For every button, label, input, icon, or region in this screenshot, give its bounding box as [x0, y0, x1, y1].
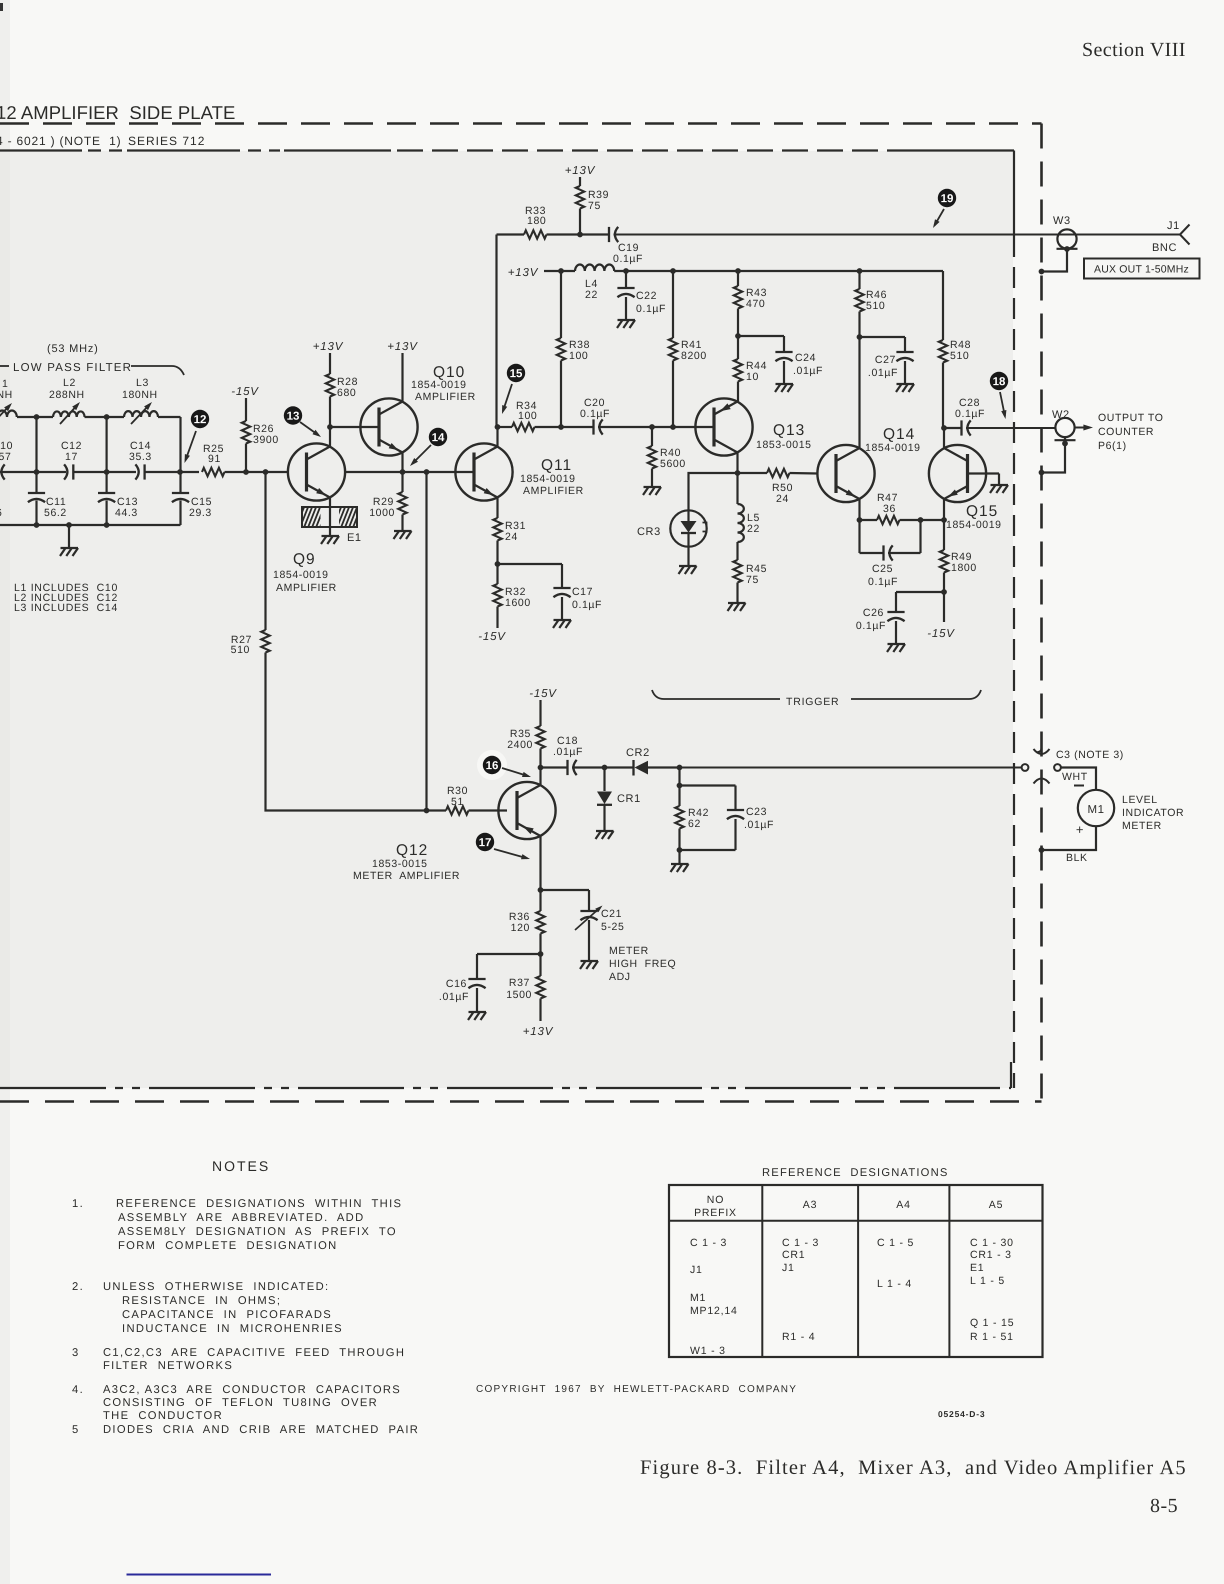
svg-text:PREFIX: PREFIX [694, 1207, 737, 1219]
svg-text:.01µF: .01µF [553, 746, 583, 758]
transistor Q15 (mirrored) [929, 445, 986, 502]
resistor R50 24 [738, 472, 768, 474]
svg-text:BLK: BLK [1066, 852, 1088, 864]
wire Q14 emitter [858, 499, 860, 521]
resistor R33 180 [524, 230, 547, 238]
resistor R49 1800 [943, 520, 945, 550]
ground below CR1 [596, 830, 614, 832]
resistor R36 120 [539, 890, 541, 911]
resistor R38 100 [560, 271, 562, 338]
W2 shield bar [1055, 439, 1076, 441]
svg-text:ADJ: ADJ [609, 971, 631, 983]
feedthrough C3 symbol [1038, 736, 1042, 752]
svg-text:C17: C17 [572, 586, 593, 598]
capacitor C11 56.2 [28, 492, 45, 494]
svg-text:P6(1): P6(1) [1098, 440, 1127, 452]
junction top rail 2 [104, 414, 110, 420]
svg-text:0.1µF: 0.1µF [572, 599, 602, 611]
svg-text:REFERENCE DESIGNATIONS: REFERENCE DESIGNATIONS [762, 1167, 949, 1179]
trigger brace [652, 690, 780, 699]
svg-text:12 AMPLIFIER SIDE PLATE: 12 AMPLIFIER SIDE PLATE [0, 102, 235, 123]
node 18 badge [990, 372, 1008, 390]
wire Q15 emitter [943, 499, 945, 521]
svg-text:180: 180 [527, 215, 546, 227]
svg-text:RESISTANCE IN OHMS;: RESISTANCE IN OHMS; [122, 1295, 281, 1307]
svg-text:Section VIII: Section VIII [1082, 39, 1186, 61]
node 19 arrow [935, 209, 944, 225]
svg-text:1600: 1600 [505, 597, 531, 609]
svg-text:UNLESS OTHERWISE INDICATED:: UNLESS OTHERWISE INDICATED: [103, 1281, 329, 1293]
svg-text:19: 19 [941, 193, 954, 205]
svg-text:5-25: 5-25 [601, 921, 624, 933]
svg-text:FORM COMPLETE DESIGNATION: FORM COMPLETE DESIGNATION [118, 1240, 338, 1252]
node 15 badge [507, 364, 525, 382]
resistor R44 10 [737, 336, 739, 359]
svg-text:100: 100 [569, 350, 588, 362]
svg-text:NO: NO [707, 1194, 724, 1206]
svg-text:44.3: 44.3 [115, 507, 138, 519]
svg-text:13: 13 [287, 411, 300, 423]
junction mid rail 2 [104, 469, 110, 475]
wire W3 shield to border [1042, 249, 1068, 272]
junction R26 bottom [243, 469, 249, 475]
svg-text:24: 24 [776, 493, 789, 505]
outer dashed border right [1040, 124, 1043, 1102]
svg-text:Q 1 - 15: Q 1 - 15 [970, 1317, 1014, 1329]
svg-text:C24: C24 [795, 352, 816, 364]
wire C3 to meter [1061, 768, 1096, 791]
wire R25 to Q9 [225, 471, 289, 473]
schematic interior shading [0, 151, 1013, 1088]
svg-text:-15V: -15V [927, 628, 955, 640]
node 14 badge [429, 428, 447, 446]
junction R39 bottom [577, 232, 583, 238]
svg-text:4.: 4. [72, 1384, 84, 1396]
svg-text:INDUCTANCE IN MICROHENRIES: INDUCTANCE IN MICROHENRIES [122, 1323, 343, 1335]
svg-text:COUNTER: COUNTER [1098, 426, 1154, 438]
svg-text:22: 22 [585, 289, 598, 301]
capacitor C24 .01uF [783, 336, 785, 352]
svg-text:4 - 6021 ) (NOTE 1): 4 - 6021 ) (NOTE 1) [0, 134, 121, 148]
svg-text:E1: E1 [970, 1262, 984, 1274]
svg-text:1500: 1500 [506, 989, 532, 1001]
resistor R47 36 [860, 519, 878, 521]
svg-text:1854-0019: 1854-0019 [520, 473, 576, 485]
svg-text:Q14: Q14 [883, 426, 915, 443]
svg-text:METER AMPLIFIER: METER AMPLIFIER [353, 870, 460, 882]
svg-text:0.1µF: 0.1µF [955, 408, 985, 420]
ground below R29 [394, 530, 412, 532]
svg-text:C21: C21 [601, 908, 622, 920]
wire Q11 collector to node 15 [496, 427, 498, 447]
ground below R40 [644, 486, 662, 488]
svg-text:.01µF: .01µF [793, 365, 823, 377]
resistor R43 470 [737, 271, 739, 286]
wire C19 to W3/J1 [614, 234, 1181, 236]
ground below R42 [678, 850, 680, 864]
transistor Q11 [455, 443, 512, 500]
svg-text:29.3: 29.3 [189, 507, 212, 519]
ground Q15 base [991, 484, 1009, 486]
svg-text:HIGH FREQ: HIGH FREQ [609, 958, 676, 970]
svg-text:470: 470 [746, 298, 765, 310]
transistor Q12 (PNP) [498, 782, 555, 839]
diode CR2 [632, 760, 634, 776]
wire rail L4 to corner [614, 270, 943, 272]
blue pen mark [127, 1574, 272, 1576]
svg-text:J1: J1 [1167, 220, 1180, 232]
svg-text:0.1µF: 0.1µF [856, 620, 886, 632]
svg-text:14: 14 [432, 432, 445, 444]
svg-text:C27: C27 [875, 354, 896, 366]
ground below C21 [581, 960, 599, 962]
svg-text:R 1 - 51: R 1 - 51 [970, 1331, 1014, 1343]
capacitor C12 17 [72, 464, 74, 479]
resistor R31 24 [496, 498, 498, 519]
ground below C16 [469, 1011, 487, 1013]
inductor L4 22 [575, 265, 614, 271]
wire E1 to ground [329, 507, 331, 536]
svg-text:-15V: -15V [478, 631, 506, 643]
svg-text:C26: C26 [863, 607, 884, 619]
ground below C26 [888, 643, 906, 645]
resistor R45 75 [736, 542, 738, 560]
junction C27 node [857, 334, 863, 340]
junction shield on border [1039, 269, 1045, 275]
junction CR1 top [602, 765, 608, 771]
capacitor C17 0.1uF [561, 564, 563, 588]
wire Q12 collector [539, 768, 541, 786]
svg-text:3: 3 [72, 1347, 80, 1359]
svg-text:CR1: CR1 [617, 793, 641, 805]
svg-text:ASSEMBLY ARE ABBREVIATED. A: ASSEMBLY ARE ABBREVIATED. ADD [118, 1212, 365, 1224]
svg-text:1854-0019: 1854-0019 [946, 519, 1002, 531]
wire Q9 to Q11 main line [345, 471, 474, 473]
wire Q12 emitter [539, 836, 541, 890]
resistor R48 510 [939, 340, 947, 362]
ground below CR3 [679, 565, 697, 567]
capacitor C14 35.3 [143, 464, 145, 479]
resistor R32 1600 [493, 584, 501, 607]
svg-text:L3 INCLUDES C14: L3 INCLUDES C14 [14, 602, 118, 614]
ground below E1 [322, 535, 340, 537]
wire +13V to R28 [329, 353, 331, 374]
svg-text:L 1 - 5: L 1 - 5 [970, 1275, 1005, 1287]
wire C18 to CR1 node [572, 766, 634, 768]
svg-text:Q13: Q13 [773, 422, 805, 439]
capacitor C26 0.1uF [895, 592, 897, 612]
resistor R26 3900 [242, 421, 250, 443]
capacitor C22 0.1uF [625, 271, 627, 288]
junction filter output [177, 469, 183, 475]
junction Q14 emitter [857, 517, 863, 523]
svg-text:8200: 8200 [681, 350, 707, 362]
svg-text:91: 91 [208, 453, 221, 465]
svg-text:L 1 - 4: L 1 - 4 [877, 1278, 912, 1290]
feedthrough C3 terminals [1022, 764, 1029, 771]
resistor R40 5600 [651, 427, 653, 446]
svg-text:+13V: +13V [313, 341, 344, 353]
transistor Q10 [360, 398, 417, 455]
svg-text:CAPACITANCE IN PICOFARADS: CAPACITANCE IN PICOFARADS [122, 1309, 332, 1321]
svg-text:+13V: +13V [508, 267, 539, 279]
svg-text:C3 (NOTE 3): C3 (NOTE 3) [1056, 749, 1124, 761]
svg-text:W3: W3 [1053, 215, 1071, 227]
node 12 arrow [186, 431, 196, 460]
junction meter amp takeoff [424, 469, 430, 475]
inductor L3 180NH [124, 411, 158, 417]
svg-text:16: 16 [486, 760, 499, 772]
wire trigger line to C3 [680, 767, 1022, 769]
junction BLK on border [1039, 847, 1045, 853]
svg-text:THE CONDUCTOR: THE CONDUCTOR [103, 1410, 223, 1422]
inner border bottom [0, 1087, 1011, 1089]
svg-text:510: 510 [950, 350, 969, 362]
capacitor C13 44.3 [98, 492, 115, 494]
svg-text:0.1µF: 0.1µF [636, 303, 666, 315]
svg-text:1854-0019: 1854-0019 [273, 569, 329, 581]
svg-text:L3: L3 [136, 377, 149, 389]
wire to meter amplifier [425, 472, 427, 811]
svg-text:12: 12 [194, 414, 207, 426]
wire Q10 emitter [401, 453, 403, 473]
node 15 arrow [503, 384, 512, 411]
wire W2 shield to border [1042, 444, 1066, 473]
wire node15 riser [495, 235, 497, 428]
wire Q14 collector [858, 337, 860, 448]
svg-text:WHT: WHT [1062, 771, 1088, 783]
svg-text:15: 15 [510, 368, 523, 380]
junction R42 top [677, 765, 683, 771]
svg-text:17: 17 [65, 451, 78, 463]
svg-text:1853-0015: 1853-0015 [372, 858, 428, 870]
wire to C16 [477, 953, 541, 955]
inner border right [1013, 151, 1015, 237]
svg-text:CR2: CR2 [626, 747, 650, 759]
capacitor C16 .01uF [468, 978, 485, 980]
svg-text:+13V: +13V [523, 1026, 554, 1038]
junction mid rail 1 [34, 469, 40, 475]
svg-text:R37: R37 [509, 977, 530, 989]
svg-text:C25: C25 [872, 563, 893, 575]
minus sign [1074, 785, 1084, 787]
resistor R27 510 [261, 630, 269, 653]
svg-text:0.1µF: 0.1µF [580, 408, 610, 420]
svg-text:+: + [1076, 822, 1084, 837]
svg-text:A4: A4 [896, 1199, 910, 1211]
svg-text:CR1: CR1 [782, 1249, 805, 1261]
transistor Q9 [288, 443, 345, 500]
svg-text:180NH: 180NH [122, 389, 158, 401]
svg-text:1000: 1000 [369, 507, 395, 519]
svg-text:M1: M1 [1088, 804, 1105, 816]
resistor R39 75 [579, 177, 581, 186]
svg-text:510: 510 [231, 644, 250, 656]
svg-text:Q9: Q9 [293, 551, 316, 568]
svg-text:75: 75 [588, 200, 601, 212]
ground below C17 [554, 619, 572, 621]
svg-text:680: 680 [337, 387, 356, 399]
svg-text:AUX OUT 1-50MHz: AUX OUT 1-50MHz [1094, 263, 1189, 275]
junction R36 bottom [538, 951, 544, 957]
svg-text:C23: C23 [746, 806, 767, 818]
ground below C24 [776, 383, 794, 385]
svg-text:1853-0015: 1853-0015 [756, 439, 812, 451]
svg-text:METER: METER [609, 945, 649, 957]
node 16 arrow [502, 768, 528, 776]
diode CR3 (circled) [670, 510, 706, 546]
svg-text:0.1µF: 0.1µF [868, 576, 898, 588]
capacitor C20 0.1uF [592, 419, 594, 434]
junction Q13 base node [670, 424, 676, 430]
wire R27 drop [264, 472, 266, 630]
capacitor C18 .01uF [541, 766, 568, 768]
junction W2 shield on border [1039, 470, 1045, 476]
wire vertical shunt 2 [105, 417, 107, 493]
svg-text:10: 10 [746, 371, 759, 383]
svg-text:1.: 1. [72, 1198, 84, 1210]
wire +13V rail [544, 270, 575, 272]
junction C26 node [941, 589, 947, 595]
svg-text:Figure 8-3. Filter A4, Mixer: Figure 8-3. Filter A4, Mixer A3, and Vid… [640, 1457, 1187, 1479]
svg-text:51: 51 [451, 796, 464, 808]
rail corner to R48 [942, 271, 944, 340]
svg-text:6: 6 [0, 507, 2, 519]
svg-text:22: 22 [747, 523, 760, 535]
W2 output arrow [1075, 427, 1090, 429]
svg-text:J1: J1 [690, 1264, 703, 1276]
junction R27 top [263, 469, 269, 475]
svg-text:1854-0019: 1854-0019 [411, 379, 467, 391]
node 17 badge [476, 833, 494, 851]
wire to C26 [896, 591, 944, 593]
svg-text:36: 36 [883, 503, 896, 515]
inductor L2 288NH [53, 411, 85, 417]
svg-text:18: 18 [993, 376, 1006, 388]
ground below R45 [728, 602, 746, 604]
svg-text:1800: 1800 [951, 562, 977, 574]
svg-text:0NH: 0NH [0, 389, 13, 401]
svg-text:A3C2, A3C3 ARE CONDUCTOR CA: A3C2, A3C3 ARE CONDUCTOR CAPACITORS [103, 1384, 401, 1396]
wire to C21 [541, 889, 590, 891]
node 19 badge [938, 189, 956, 207]
trimmer capacitor C21 5-25 [588, 890, 590, 911]
junction Q15 emitter [941, 517, 947, 523]
wire R42/C23 bottom tie [680, 849, 736, 851]
svg-text:2400: 2400 [507, 739, 533, 751]
svg-text:35.3: 35.3 [129, 451, 152, 463]
svg-text:CR1 - 3: CR1 - 3 [970, 1249, 1012, 1261]
table header rule [669, 1220, 1043, 1222]
svg-text:C 1 - 3: C 1 - 3 [782, 1237, 819, 1249]
wire filter right corner [179, 417, 181, 493]
svg-text:M1: M1 [690, 1292, 706, 1304]
node 17 arrow [494, 849, 527, 858]
wire Q10 collector [401, 353, 403, 402]
svg-text:INDICATOR: INDICATOR [1122, 807, 1184, 819]
svg-text:5600: 5600 [660, 458, 686, 470]
filter ground [68, 525, 70, 548]
resistor R35 2400 [539, 700, 541, 726]
svg-text:OUTPUT TO: OUTPUT TO [1098, 412, 1164, 424]
filter bottom rail wire [0, 524, 181, 526]
wire to C27 [860, 336, 906, 338]
capacitor C19 0.1uF [608, 227, 610, 242]
svg-text:SERIES 712: SERIES 712 [128, 134, 205, 148]
capacitor C15 29.3 [172, 492, 189, 494]
svg-text:LEVEL: LEVEL [1122, 794, 1158, 806]
ground below C22 [618, 319, 636, 321]
connector J1 BNC [1180, 225, 1190, 235]
diode CR1 [603, 768, 605, 792]
table frame [669, 1185, 1043, 1357]
wire C28 to W2 [966, 427, 1056, 429]
svg-text:C1,C2,C3 ARE CAPACITIVE FEE: C1,C2,C3 ARE CAPACITIVE FEED THROUGH [103, 1347, 405, 1359]
svg-text:W2: W2 [1052, 409, 1070, 421]
outer dashed border top [0, 122, 1042, 125]
resistor R28 680 [326, 374, 334, 396]
inner border top [0, 149, 82, 151]
left edge scan shade [0, 0, 10, 1584]
capacitor C25 0.1uF loop [858, 520, 860, 553]
svg-text:+13V: +13V [565, 165, 596, 177]
svg-text:17: 17 [479, 837, 492, 849]
outer dashed border bottom [0, 1100, 1042, 1103]
capacitor C27 .01uF [904, 337, 906, 352]
wire CR3 to ground [687, 547, 689, 567]
wire R43 junction to C24 [738, 335, 784, 337]
svg-text:L2: L2 [63, 377, 76, 389]
svg-text:METER: METER [1122, 820, 1162, 832]
svg-text:C16: C16 [446, 978, 467, 990]
filter middle rail wire [0, 471, 66, 473]
resistor R42 62 with C23 [678, 768, 680, 807]
svg-text:A3: A3 [803, 1199, 817, 1211]
svg-text:Q12: Q12 [396, 842, 428, 859]
svg-text:510: 510 [866, 300, 885, 312]
svg-text:(53 MHz): (53 MHz) [47, 343, 99, 355]
node 13 badge [284, 406, 302, 424]
svg-text:C 1 - 30: C 1 - 30 [970, 1237, 1014, 1249]
wire R27 to meter amp corner [266, 653, 427, 811]
svg-text:C 1 - 5: C 1 - 5 [877, 1237, 914, 1249]
svg-text:C22: C22 [636, 290, 657, 302]
resistor R37 1500 [536, 976, 544, 999]
junction Q12 emitter node [538, 887, 544, 893]
svg-text:A5: A5 [989, 1199, 1003, 1211]
wire collector to CR3 [689, 473, 738, 511]
table column rules [761, 1185, 763, 1357]
svg-text:R1 - 4: R1 - 4 [782, 1331, 815, 1343]
junction R40 top [649, 424, 655, 430]
svg-text:0.1µF: 0.1µF [613, 253, 643, 265]
svg-text:75: 75 [746, 574, 759, 586]
wire Q9 emitter to E1 [329, 498, 331, 508]
junction Q12 collector node [538, 765, 544, 771]
resistor R25 91 [202, 468, 225, 476]
junction R38 top [558, 268, 564, 274]
connector W2 [1055, 418, 1074, 437]
junction R43 top [735, 268, 741, 274]
junction R41 top [670, 268, 676, 274]
transistor Q14 [817, 445, 874, 502]
junction C28 node [941, 425, 947, 431]
wire R31 junction to C17 [498, 563, 563, 565]
wire Q9 collector to Q10 base [330, 426, 379, 428]
svg-text:Q11: Q11 [541, 457, 572, 474]
svg-text:1854-0019: 1854-0019 [865, 442, 921, 454]
svg-text:AMPLIFIER: AMPLIFIER [276, 582, 337, 594]
